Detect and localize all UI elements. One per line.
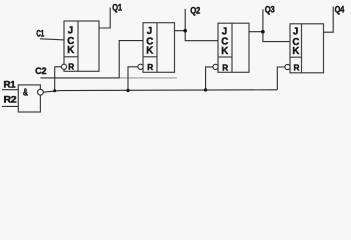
JK flip-flop U2 box [143,23,175,73]
svg-text:R: R [68,63,74,72]
wire U3 output to Q3 riser [249,9,263,31]
svg-text:Q2: Q2 [190,5,200,15]
U3 pin labels J C K R [221,26,228,72]
wire C2 input to U2 clock [41,41,144,78]
U1 pin labels J C K R [67,26,74,72]
node U3 reset junction [204,88,207,91]
U2 reset bubble [138,64,143,69]
svg-text:R1: R1 [4,80,16,90]
wire Q3 node to U4 clock [263,32,290,42]
svg-text:R2: R2 [4,95,17,105]
U4 pin labels J C K R [292,27,299,73]
JK flip-flop U3 box [218,23,249,72]
wire C1 input to U1 clock [40,39,64,40]
wire Q2 node to U3 clock [185,31,218,41]
node Q3 junction [261,30,265,34]
wire R1 input to NAND [2,89,18,91]
wire U4 reset riser [277,67,285,90]
svg-text:K: K [292,46,299,57]
wire ghost line under U2 [120,77,177,79]
U4 reset bubble [285,64,290,69]
svg-text:C1: C1 [36,29,44,39]
U2 pin labels J C K R [146,26,153,72]
wire R2 input to NAND [2,105,18,107]
U1 reset bubble [61,64,66,69]
svg-text:K: K [67,45,74,56]
wire NAND output reset line [43,90,277,92]
wire U4 output to Q4 riser [324,7,334,33]
wire U1 reset riser [55,67,61,91]
svg-text:K: K [221,46,228,57]
JK flip-flop U4 box [290,24,324,73]
svg-text:R: R [222,63,228,72]
NAND output bubble [38,89,44,95]
svg-text:R: R [147,63,153,72]
svg-text:&: & [23,88,28,99]
NAND gate D1 box [18,85,40,112]
svg-text:R: R [294,64,300,73]
svg-text:K: K [146,46,153,57]
node Q2 junction [183,29,187,33]
JK flip-flop U1 box [64,21,99,71]
svg-text:Q1: Q1 [112,2,122,12]
svg-text:C2: C2 [35,66,46,76]
wire U3 reset riser [206,67,213,90]
node U1 reset junction [53,89,56,92]
svg-text:Q4: Q4 [335,5,345,15]
wire U2 output to Q2 riser [175,9,186,31]
svg-text:Q3: Q3 [265,4,275,14]
wire U2 reset riser [128,67,138,91]
node U2 reset junction [126,89,129,92]
wire U1 output to Q1 riser [99,8,110,29]
NAND gate ampersand symbol [23,88,28,99]
U3 reset bubble [213,64,218,69]
